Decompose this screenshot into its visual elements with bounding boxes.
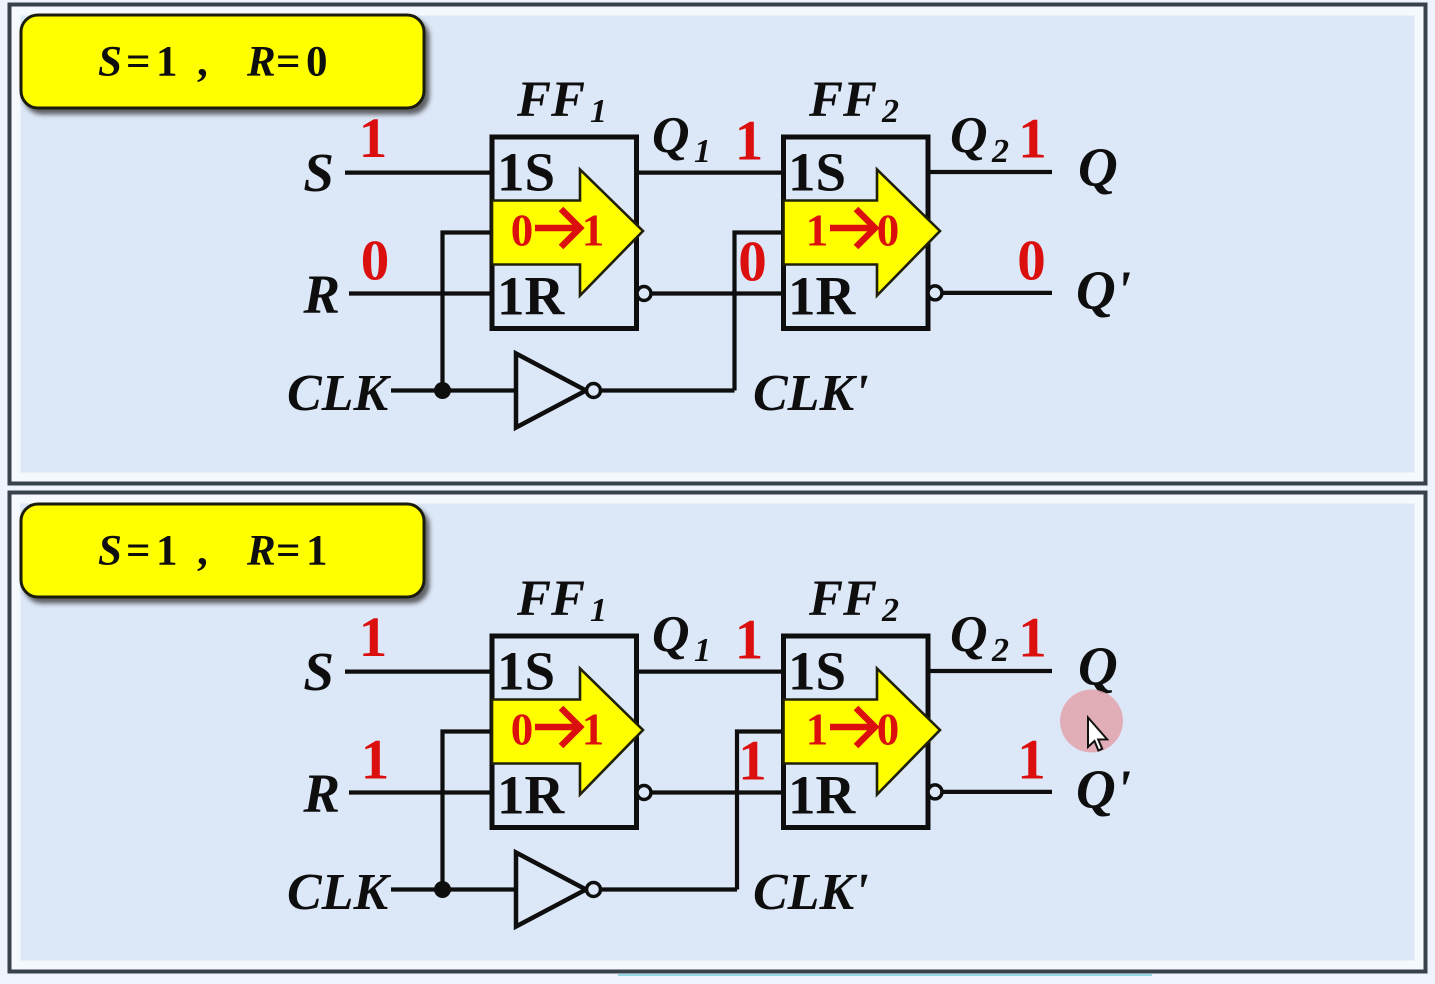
wire Q output [926,669,1052,673]
svg-text:1S: 1S [788,641,846,702]
flip-flop FF2 box [784,137,929,329]
svg-text:CLK: CLK [287,365,391,422]
teal accent on bottom border [618,974,1152,976]
svg-text:1: 1 [359,606,388,669]
mouse cursor [1088,718,1107,751]
svg-text:Q': Q' [1076,260,1131,321]
flip-flop FF2 box [784,636,929,828]
svg-text:1S: 1S [497,641,555,702]
panel 2 frame [10,493,1426,972]
wire inverter output CLKp [600,388,735,392]
svg-text:0: 0 [361,230,390,293]
wire CLK riser to FF1 clock [443,233,495,391]
svg-text:CLK: CLK [287,864,391,921]
inverter (NOT gate) [516,853,601,927]
wire CLK input [391,388,516,392]
wire inverter output CLKp [600,887,737,891]
wire CLK input [391,887,516,891]
pink cursor highlight circle [1060,690,1123,753]
wire CLKp riser to FF2 clock [735,233,786,391]
svg-text:1R: 1R [497,266,566,327]
FF1 inverted-output bubble [637,287,651,301]
svg-text:1: 1 [806,206,829,256]
wire R input [349,790,494,794]
svg-text:0: 0 [511,705,534,755]
transition arrow inside FF1 [492,669,643,795]
junction CLK node [434,382,451,399]
svg-text:1: 1 [735,110,764,173]
flip-flop FF1 box [492,636,637,828]
transition arrow inside FF2 [784,170,941,296]
svg-text:1: 1 [806,705,829,755]
svg-text:CLK': CLK' [753,864,869,921]
svg-text:0: 0 [511,206,534,256]
wire FF1 inverted output to FF2 1R [651,291,785,295]
svg-text:1: 1 [735,609,764,672]
svg-text:1R: 1R [788,765,857,826]
inverter (NOT gate) [516,354,601,428]
svg-text:Q: Q [1078,137,1118,198]
panel 1 frame [10,5,1426,484]
wire S input [345,171,494,175]
svg-text:1: 1 [582,705,605,755]
svg-text:1R: 1R [497,765,566,826]
wire CLKp riser to FF2 clock [737,732,785,890]
wire FF1 inverted output to FF2 1R [651,790,785,794]
svg-text:0: 0 [1017,230,1046,293]
transition label 1->0 (FF2 panel 2) [806,705,900,755]
svg-text:R: R [302,264,340,325]
FF2 inverted-output bubble [928,286,942,300]
svg-text:0: 0 [877,705,900,755]
flip-flop FF1 box [492,137,637,329]
wire Q1 between flip-flops [634,171,785,175]
svg-text:R: R [302,763,340,824]
transition arrow inside FF1 [492,170,643,296]
wire Qp output [942,291,1052,295]
svg-text:1: 1 [359,107,388,170]
svg-text:0: 0 [877,206,900,256]
wire Q output [926,170,1052,174]
transition label 0->1 (FF1 panel 2) [511,705,605,755]
junction CLK node [434,881,451,898]
svg-text:1S: 1S [497,142,555,203]
FF2 inverted-output bubble [928,785,942,799]
svg-text:1: 1 [582,206,605,256]
svg-text:1: 1 [1017,729,1046,792]
wire CLK riser to FF1 clock [443,732,495,890]
caption box S=1,R=0 (panel 1) [21,15,424,108]
svg-text:0: 0 [738,231,767,294]
svg-text:1S: 1S [788,142,846,203]
wire Qp output [942,790,1052,794]
svg-text:1: 1 [361,729,390,792]
wire S input [345,669,494,673]
svg-text:CLK': CLK' [753,365,869,422]
transition label 0->1 (FF1 panel 1) [511,206,605,256]
transition label 1->0 (FF2 panel 1) [806,206,900,256]
svg-text:Q: Q [1078,636,1118,697]
caption box S=1,R=1 (panel 2) [21,504,424,597]
transition arrow inside FF2 [784,669,941,795]
svg-text:Q': Q' [1076,759,1131,820]
svg-text:1: 1 [738,730,767,793]
svg-text:1: 1 [1018,108,1047,171]
svg-text:1: 1 [1018,607,1047,670]
svg-text:S: S [303,641,334,702]
svg-text:1R: 1R [788,266,857,327]
svg-text:S: S [303,142,334,203]
FF1 inverted-output bubble [637,786,651,800]
wire R input [349,291,494,295]
wire Q1 between flip-flops [634,669,785,673]
